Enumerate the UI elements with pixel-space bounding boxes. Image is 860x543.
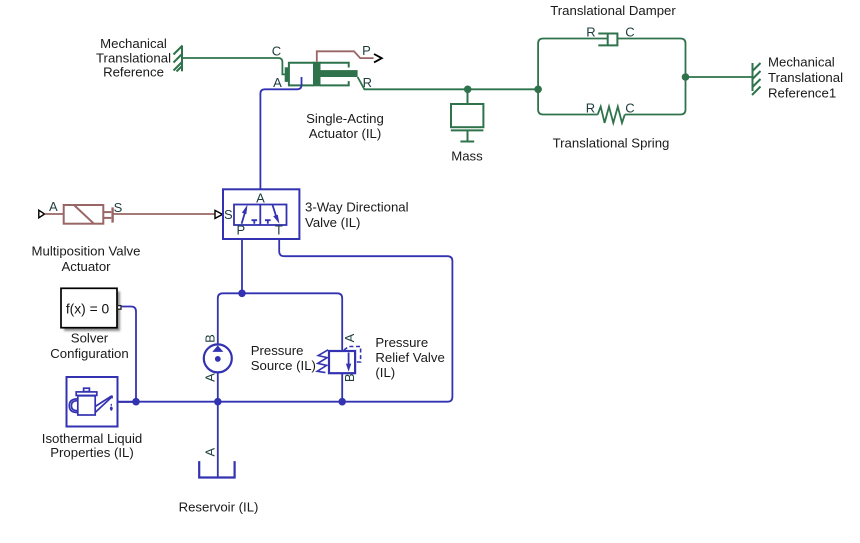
svg-text:Valve (IL): Valve (IL) xyxy=(305,215,360,230)
svg-text:Pressure: Pressure xyxy=(251,343,304,358)
spring K: Translational Spring symbol xyxy=(598,107,625,123)
wire: valve T to bottom bus (big right loop) xyxy=(279,239,452,402)
svg-text:Mechanical: Mechanical xyxy=(100,36,167,51)
svg-text:A: A xyxy=(342,333,357,342)
svg-text:A: A xyxy=(273,75,282,90)
wire: A port to multiposition actuator xyxy=(45,213,64,215)
svg-text:Relief Valve: Relief Valve xyxy=(375,350,444,365)
wire: valve P down to pump loop xyxy=(241,239,243,293)
damper D: Translational Damper symbol xyxy=(598,33,617,46)
mass M: Mass block xyxy=(451,89,484,141)
valve left chamber arrow xyxy=(242,205,248,224)
svg-text:Actuator: Actuator xyxy=(61,259,111,274)
label: 3-Way Directional Valve (IL) xyxy=(305,200,409,230)
ground: Mechanical Translational Reference1 wall xyxy=(752,63,761,95)
output arrow P xyxy=(374,54,382,62)
svg-text:P: P xyxy=(362,43,371,58)
svg-text:A: A xyxy=(49,199,58,214)
pump P1: Pressure Source (IL) xyxy=(204,344,232,372)
wire: isothermal properties to bus xyxy=(118,401,137,403)
svg-text:Configuration: Configuration xyxy=(50,346,128,361)
wire: bottom bus xyxy=(118,401,343,403)
junction node bus/solver xyxy=(132,398,140,406)
svg-text:Pressure: Pressure xyxy=(375,335,428,350)
svg-text:C: C xyxy=(272,44,281,59)
junction node at loop left xyxy=(534,86,542,94)
junction node at loop right xyxy=(682,73,690,81)
wire: actuator A to valve A (blue) xyxy=(260,77,301,189)
svg-text:Translational Spring: Translational Spring xyxy=(553,136,670,151)
valve V1: 3-Way Directional Valve (IL) outer box xyxy=(223,189,299,239)
svg-text:Translational Damper: Translational Damper xyxy=(550,3,676,18)
svg-text:A: A xyxy=(203,448,218,457)
svg-text:Translational: Translational xyxy=(768,70,843,85)
svg-text:C: C xyxy=(625,101,634,116)
wire: relief valve B to bus xyxy=(341,373,343,402)
input port triangle A (multiposition actuator) xyxy=(39,210,45,218)
input port triangle S (valve) xyxy=(215,210,223,218)
svg-text:P: P xyxy=(236,222,245,237)
physical signal wire: actuator S to valve S xyxy=(113,213,215,215)
svg-text:Multiposition Valve: Multiposition Valve xyxy=(32,244,141,259)
svg-text:R: R xyxy=(586,25,595,40)
junction node bus/pump xyxy=(214,398,222,406)
label: Mechanical Translational Reference1 xyxy=(768,55,843,101)
wire: bus down to reservoir xyxy=(217,402,219,478)
wire loop right: from damper to spring xyxy=(617,39,685,115)
valve left chamber blocked port T-symbol xyxy=(252,220,258,224)
block: Isothermal Liquid Properties (IL) xyxy=(67,377,118,427)
svg-text:Single-Acting: Single-Acting xyxy=(306,111,384,126)
label: Pressure Source (IL) xyxy=(251,343,316,373)
junction node P/pump loop xyxy=(238,290,246,298)
svg-text:Properties (IL): Properties (IL) xyxy=(50,445,134,460)
svg-text:T: T xyxy=(275,222,283,237)
junction node bus/relief xyxy=(338,398,346,406)
svg-text:Translational: Translational xyxy=(96,51,171,66)
svg-text:Isothermal Liquid: Isothermal Liquid xyxy=(42,431,142,446)
svg-text:Source (IL): Source (IL) xyxy=(251,358,316,373)
svg-text:Mechanical: Mechanical xyxy=(768,55,835,70)
svg-text:Reference1: Reference1 xyxy=(768,86,836,101)
svg-text:Reference: Reference xyxy=(103,65,164,80)
svg-text:S: S xyxy=(224,207,233,222)
svg-text:Actuator (IL): Actuator (IL) xyxy=(309,126,382,141)
wire: pump bottom to bus xyxy=(217,372,219,401)
reservoir T1: Reservoir (IL) tank xyxy=(199,461,234,477)
wire: loop to reference1 wall xyxy=(686,76,753,78)
svg-text:f(x) = 0: f(x) = 0 xyxy=(66,301,110,316)
valve inner body xyxy=(234,205,287,226)
wire: pump loop top xyxy=(218,293,342,351)
block: Multiposition Valve Actuator xyxy=(64,205,113,224)
wire: reference wall to actuator port C xyxy=(183,58,285,74)
svg-text:3-Way Directional: 3-Way Directional xyxy=(305,200,409,215)
svg-text:A: A xyxy=(256,190,265,205)
label: Mechanical Translational Reference xyxy=(96,36,171,80)
label: Pressure Relief Valve (IL) xyxy=(375,335,444,380)
svg-text:Mass: Mass xyxy=(451,149,483,164)
physical signal wire P from actuator xyxy=(317,51,374,61)
svg-text:S: S xyxy=(114,200,123,215)
svg-text:R: R xyxy=(586,101,595,116)
svg-text:Reservoir (IL): Reservoir (IL) xyxy=(179,500,259,515)
junction node at mass xyxy=(464,86,472,94)
svg-text:A: A xyxy=(203,373,218,382)
ground: Mechanical Translational Reference wall xyxy=(174,46,183,72)
label: Solver Configuration xyxy=(50,331,128,362)
svg-text:Solver: Solver xyxy=(71,331,109,346)
wire: solver to bus xyxy=(122,307,136,402)
svg-text:B: B xyxy=(342,373,357,382)
svg-text:(IL): (IL) xyxy=(375,365,395,380)
oil can icon xyxy=(69,388,112,415)
valve right chamber arrow xyxy=(272,205,279,224)
wire loop left: damper/spring parallel network xyxy=(538,39,607,115)
valve right chamber blocked port T-symbol xyxy=(265,220,271,224)
solver S1: Solver Configuration block with shadow xyxy=(61,288,121,331)
label: Isothermal Liquid Properties (IL) xyxy=(42,431,142,460)
svg-text:B: B xyxy=(203,334,218,343)
label: Single-Acting Actuator (IL) xyxy=(306,111,384,141)
label: Multiposition Valve Actuator xyxy=(32,244,141,274)
relief valve V2: Pressure Relief Valve (IL) xyxy=(317,347,360,374)
wire: actuator rod R to mass and damper loop xyxy=(358,77,538,89)
actuator U1: Single-Acting Actuator (IL) xyxy=(285,62,357,87)
svg-text:C: C xyxy=(625,25,634,40)
